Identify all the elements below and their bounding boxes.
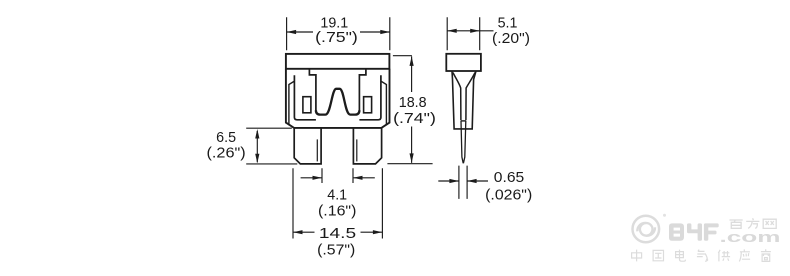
svg-text:(.57"): (.57") bbox=[317, 243, 355, 259]
svg-text:5.1: 5.1 bbox=[498, 16, 518, 32]
svg-text:(.74"): (.74") bbox=[393, 111, 436, 127]
6.5 dimension line bbox=[256, 131, 258, 162]
18.8 dimension line segments bbox=[411, 56, 413, 162]
4.1 extension lines bbox=[322, 168, 353, 183]
left blade edge line bbox=[316, 139, 318, 161]
watermark char wang bbox=[763, 219, 776, 228]
19.1 arrowheads bbox=[287, 30, 390, 34]
fuse body outline with chamfered bottom corners bbox=[286, 69, 390, 128]
svg-text:0.65: 0.65 bbox=[494, 170, 524, 186]
left terminal plate outer edge bbox=[294, 75, 316, 120]
18.8 arrowheads bbox=[410, 56, 414, 162]
5.1 arrowheads bbox=[447, 29, 480, 33]
fuse top cap band bbox=[286, 54, 390, 69]
watermark char gong bbox=[718, 250, 730, 262]
watermark letter F bbox=[704, 223, 719, 240]
svg-text:(.026"): (.026") bbox=[485, 188, 532, 204]
6.5 arrowheads bbox=[255, 129, 259, 163]
watermark logo swirl tail upper-left bbox=[637, 223, 646, 231]
19.1 dimension line bbox=[287, 31, 390, 33]
0.65 extension lines bbox=[459, 166, 467, 199]
side view blade funnel right bbox=[466, 73, 475, 121]
right terminal plate outer edge bbox=[359, 75, 381, 120]
14.5 extension lines bbox=[293, 168, 382, 238]
4.1 arrowheads bbox=[313, 176, 363, 180]
side view top cap bbox=[446, 54, 481, 71]
left housing rib bbox=[289, 81, 295, 125]
right terminal plate neck and inner edge bbox=[359, 69, 366, 111]
svg-text:(.26"): (.26") bbox=[207, 146, 246, 162]
left plate window bbox=[303, 97, 311, 113]
14.5 dimension line segments bbox=[293, 231, 382, 233]
watermark sparkle bbox=[663, 214, 666, 217]
19.1 extension lines bbox=[287, 17, 390, 50]
watermark char bai bbox=[730, 220, 743, 228]
0.65 arrowheads bbox=[449, 179, 476, 183]
18.8 extension lines bbox=[387, 56, 432, 164]
svg-text:(.20"): (.20") bbox=[492, 31, 530, 47]
fuse element bar with bell-shaped link bbox=[316, 89, 360, 115]
watermark char qi bbox=[697, 250, 708, 262]
svg-text:14.5: 14.5 bbox=[319, 226, 356, 242]
svg-text:6.5: 6.5 bbox=[216, 130, 236, 146]
right leg bbox=[353, 128, 381, 164]
0.65 arrow shafts bbox=[438, 180, 488, 182]
6.5 extension lines bbox=[246, 128, 297, 164]
watermark logo outer ring bbox=[633, 216, 660, 243]
right plate window bbox=[364, 97, 372, 113]
svg-text:19.1: 19.1 bbox=[320, 16, 348, 32]
right blade edge line bbox=[356, 139, 358, 161]
side view blade crossbar bbox=[461, 120, 466, 122]
left terminal plate neck and inner edge bbox=[309, 69, 316, 111]
5.1 dimension line and leader bbox=[447, 30, 493, 32]
svg-text:(.16"): (.16") bbox=[318, 203, 356, 219]
4.1 arrow shafts bbox=[301, 177, 375, 179]
watermark char ying bbox=[739, 249, 750, 261]
svg-text:18.8: 18.8 bbox=[399, 95, 427, 111]
svg-text:(.75"): (.75") bbox=[315, 30, 358, 46]
side view blade funnel left bbox=[453, 73, 461, 121]
watermark char shang bbox=[761, 249, 771, 261]
side view blade tip bbox=[461, 121, 466, 163]
14.5 arrowheads bbox=[293, 230, 382, 234]
left leg bbox=[294, 128, 321, 164]
watermark char zhong bbox=[632, 250, 642, 262]
5.1 extension lines bbox=[447, 17, 480, 50]
watermark char dian bbox=[676, 250, 686, 262]
watermark logo inner ring bbox=[640, 223, 653, 236]
side view housing outline bbox=[452, 71, 476, 129]
right housing rib bbox=[381, 81, 387, 125]
svg-text:.com: .com bbox=[720, 229, 781, 246]
watermark letter Y bbox=[687, 223, 702, 240]
watermark char guo bbox=[653, 250, 663, 260]
watermark logo swirl tail lower-right bbox=[646, 227, 655, 235]
watermark char fang bbox=[746, 218, 759, 228]
watermark letter B bbox=[669, 223, 684, 240]
svg-text:4.1: 4.1 bbox=[327, 188, 347, 204]
